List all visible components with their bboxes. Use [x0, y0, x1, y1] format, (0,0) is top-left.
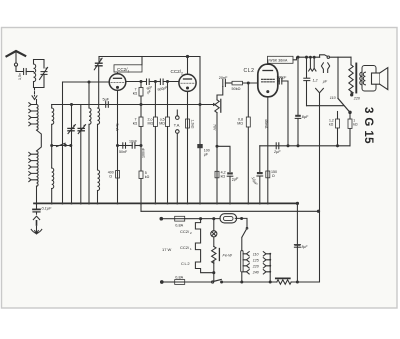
- node tone cap tap: [306, 56, 308, 58]
- wire CL2 cathode: [267, 97, 269, 204]
- switch S1 band switch: [52, 145, 71, 147]
- resistor R15 surge zigzag: [276, 277, 290, 279]
- secondary winding arcs: [360, 72, 362, 85]
- variable capacitor C2 tuning: [41, 71, 47, 73]
- svg-text:10nF: 10nF: [129, 139, 138, 143]
- variable capacitor C5 grid trimmer: [98, 57, 100, 63]
- fuse F1 0,8A: [175, 216, 185, 221]
- antenna plug socket: [14, 63, 17, 66]
- wire long drop x319.5: [319, 93, 321, 282]
- coil L7 grid coil: [98, 108, 100, 124]
- wire grid line tube1: [63, 81, 110, 83]
- svg-text:50kΩ: 50kΩ: [232, 87, 241, 91]
- svg-text:kΩ: kΩ: [133, 122, 138, 126]
- capacitor C17 8uF filter: [297, 57, 299, 114]
- node filter bottom: [297, 145, 299, 147]
- svg-text:5mA: 5mA: [115, 124, 119, 132]
- svg-text:70V: 70V: [213, 124, 217, 131]
- pilot lamp LA1: [213, 219, 215, 231]
- resistor R8 4k: [215, 171, 219, 178]
- wire CL2 anode top: [267, 60, 269, 64]
- svg-text:MΩ: MΩ: [237, 122, 243, 126]
- svg-text:46mA: 46mA: [264, 119, 268, 129]
- potentiometer P1 volume: [213, 103, 216, 107]
- svg-text:5µF: 5µF: [103, 97, 110, 101]
- capacitor C1 antenna coupling: [23, 69, 25, 75]
- wire selector rail: [307, 105, 344, 107]
- wire bus1 end drop: [296, 203, 298, 282]
- resistor R13 1k: [349, 112, 351, 119]
- ground anchor: [36, 226, 38, 234]
- resistor R4 2,0M grid leak: [154, 82, 156, 118]
- svg-text:Ω: Ω: [109, 174, 112, 178]
- tube U2 CC2/2: [179, 74, 196, 91]
- node chain joint: [213, 272, 215, 274]
- capacitor C13 20nF to CL2 grid: [222, 80, 224, 87]
- rail output top: [293, 57, 320, 60]
- capacitor C12 2uF electrolytic: [227, 172, 233, 174]
- svg-text:0,8A: 0,8A: [175, 223, 183, 227]
- svg-text:CC2/: CC2/: [171, 69, 182, 74]
- earth plug chevron: [36, 212, 38, 214]
- node tube2 grid junction: [167, 81, 169, 83]
- svg-text:1: 1: [128, 69, 130, 73]
- svg-text:kΩ: kΩ: [221, 174, 226, 178]
- capacitor C18 1,2uF tone: [306, 57, 308, 78]
- resistor R12 1,2k: [337, 112, 339, 120]
- coil L1 antenna tank: [33, 60, 35, 65]
- svg-text:kΩ: kΩ: [353, 122, 358, 126]
- transformer core: [355, 64, 357, 93]
- svg-text:100nF: 100nF: [142, 147, 146, 158]
- svg-text:CL2: CL2: [244, 68, 255, 74]
- wire rectifier to selector: [235, 218, 247, 227]
- svg-text:20nF: 20nF: [219, 76, 228, 80]
- node plate resistor tap: [140, 81, 142, 83]
- svg-text:240: 240: [252, 270, 259, 274]
- wire tube2 anode to rail: [187, 57, 189, 75]
- fuse F2 0,8A: [175, 280, 185, 285]
- wire socket bus: [269, 253, 271, 273]
- wire mains to fuse: [161, 218, 174, 220]
- tube U1 CC2/1: [109, 74, 126, 91]
- wire rail corner down: [199, 57, 201, 204]
- switch S3 voltage selector arm: [338, 98, 350, 112]
- tap forks L2: [29, 103, 37, 107]
- earth lead dash: [36, 221, 38, 225]
- svg-text:WSK 36mA: WSK 36mA: [269, 59, 288, 63]
- coil L8 reaction coil: [98, 170, 100, 191]
- node C15 corner: [259, 146, 261, 172]
- node grid junction: [88, 81, 90, 83]
- tap 220: [350, 92, 353, 94]
- capacitor C19 0,1uF ground: [36, 203, 38, 209]
- svg-text:3 G 15: 3 G 15: [362, 107, 374, 144]
- antenna A1: [7, 51, 26, 56]
- node heater chain tap: [200, 218, 202, 220]
- resistor R6 cathode bias: [186, 119, 190, 128]
- wire tank top: [34, 60, 45, 69]
- selector voltage taps: [241, 251, 243, 273]
- svg-text:1,2: 1,2: [313, 79, 318, 83]
- svg-text:110: 110: [253, 252, 259, 256]
- capacitor C8 100uF electrolytic: [197, 144, 202, 148]
- svg-text:T.A.: T.A.: [174, 124, 181, 128]
- wire x80.8: [80, 105, 82, 204]
- bus heater: [141, 210, 319, 212]
- ballast resistor R14 Fe-W: [213, 237, 215, 247]
- capacitor C10 50nF: [122, 143, 124, 148]
- wire fuse to rectifier: [185, 218, 220, 220]
- heater chain HT: [195, 219, 213, 273]
- meter box WSK 36mA: [268, 56, 294, 63]
- svg-text:2: 2: [181, 71, 183, 75]
- svg-text:220: 220: [353, 97, 361, 101]
- rail B+ top: [99, 56, 200, 58]
- rectifier V1: [220, 214, 237, 223]
- node grid leak junction: [154, 81, 156, 83]
- variable capacitor C4 trimmer: [78, 127, 84, 129]
- resistor R7 400 ohm tube1 cathode: [116, 171, 120, 179]
- coil L3 band coil lower: [37, 151, 39, 186]
- transformer secondary loop: [362, 66, 376, 92]
- plug stems P2: [310, 56, 312, 58]
- wire AVC x71.5: [71, 105, 73, 204]
- capacitor C20 8uF: [294, 244, 300, 246]
- plug sockets column: [263, 252, 269, 256]
- resistor R5 0,5M grid resistor: [167, 82, 169, 118]
- plug socket circle: [327, 56, 329, 58]
- svg-text:8µF: 8µF: [302, 115, 309, 119]
- node filter tap: [297, 56, 299, 58]
- node pot bottom branch: [216, 145, 218, 147]
- wire mid-right rail y145.8: [260, 145, 350, 147]
- variable capacitor C3 padder: [68, 127, 74, 129]
- wire jog between band coils: [37, 130, 42, 151]
- svg-text:50nF: 50nF: [119, 150, 128, 154]
- plug sockets chevrons: [321, 63, 323, 73]
- resistor R10 0,8M grid: [247, 83, 249, 117]
- node grid return: [287, 145, 289, 147]
- speaker SP1: [372, 73, 380, 84]
- svg-text:kΩ: kΩ: [133, 92, 138, 96]
- svg-text:1,2kΩ: 1,2kΩ: [191, 120, 195, 129]
- svg-text:CC2/: CC2/: [180, 245, 190, 250]
- resistor R2 7k decoupling: [139, 117, 143, 127]
- svg-text:0,1µF: 0,1µF: [42, 207, 52, 211]
- capacitor C9 5uF on AVC rail: [105, 102, 107, 108]
- svg-text:2µF: 2µF: [273, 150, 281, 154]
- transformer T1 primary: [350, 57, 352, 65]
- bus ground: [34, 202, 297, 204]
- svg-text:CC2/: CC2/: [180, 229, 190, 234]
- svg-text:1,5n: 1,5n: [18, 73, 22, 80]
- node selector bottom: [241, 281, 243, 283]
- capacitor C6 coupling 100pF: [146, 79, 148, 85]
- wire ganged tuning link (dashed): [34, 88, 36, 96]
- resistor R9 50k stopper: [232, 81, 243, 85]
- svg-text:220: 220: [252, 264, 259, 268]
- svg-text:8µF: 8µF: [302, 245, 309, 249]
- node rail AVC: [199, 104, 201, 106]
- wire tube1 cathode: [117, 90, 119, 203]
- svg-text:CC2/: CC2/: [117, 67, 128, 72]
- resistor R3 5k: [140, 146, 142, 172]
- coil L2 band coil upper: [37, 105, 39, 131]
- wire tube2 cathode: [187, 91, 189, 203]
- wire cap to tank: [26, 71, 33, 73]
- switch S5 mains: [212, 281, 214, 283]
- wire grid return x62.5: [62, 82, 64, 203]
- svg-text:kΩ: kΩ: [145, 175, 150, 179]
- label box U1: [114, 65, 142, 72]
- svg-text:MΩ: MΩ: [159, 122, 165, 126]
- plug bridge jumper: [320, 55, 327, 57]
- node bus joints: [35, 202, 269, 204]
- wire branch to C12: [217, 146, 230, 171]
- resistor R11 150 ohm cathode: [266, 171, 270, 178]
- node AVC junction2: [140, 104, 142, 106]
- plug fork of drop wire: [316, 88, 324, 92]
- wire antenna lead-in: [15, 51, 17, 63]
- wire cathode network y145: [118, 145, 133, 147]
- svg-text:110: 110: [330, 96, 337, 100]
- svg-text:0,8A: 0,8A: [175, 276, 183, 280]
- coil L4 oscillator: [51, 105, 53, 109]
- wire chain bottom to bus: [36, 186, 38, 203]
- coil L5 oscillator lower: [52, 168, 54, 189]
- band plug contact: [32, 96, 37, 100]
- capacitor C11 10nF: [131, 143, 133, 148]
- jack TA pickup terminals: [176, 110, 178, 116]
- svg-text:125: 125: [253, 258, 259, 262]
- svg-text:17 W: 17 W: [162, 247, 172, 252]
- wire mains bottom: [161, 281, 164, 284]
- wire tank bottom: [34, 74, 45, 87]
- rail AVC horizontal: [52, 104, 213, 106]
- capacitor C16 2uF: [275, 143, 277, 149]
- tap forks L3: [29, 152, 37, 156]
- wire coupling line: [126, 81, 147, 83]
- svg-text:100pF: 100pF: [277, 76, 287, 80]
- node AVC junction: [71, 104, 73, 106]
- svg-text:kΩ: kΩ: [329, 122, 334, 126]
- svg-text:Ω: Ω: [272, 174, 275, 178]
- switch S4: [246, 227, 248, 229]
- capacitor C14 grid 100pF: [278, 80, 280, 82]
- capacitor C15 10uF electrolytic: [257, 172, 263, 174]
- node CL2 grid: [247, 82, 249, 84]
- tube U3 CL2 output: [258, 64, 278, 97]
- wire contact 110 drop: [337, 57, 339, 98]
- svg-text:MΩ: MΩ: [148, 122, 154, 126]
- resistor R1 7k plate load: [140, 82, 142, 88]
- terminal mains L: [160, 217, 163, 220]
- node anode rail: [186, 55, 188, 57]
- node lamp tap: [213, 218, 215, 220]
- svg-text:Fe-W: Fe-W: [223, 254, 233, 258]
- wire band chain top: [36, 100, 38, 105]
- capacitor C7 coupling 500pF: [159, 79, 161, 85]
- wire plug to coupling cap: [16, 66, 23, 71]
- svg-text:CL2: CL2: [181, 261, 190, 266]
- coil L6 RF secondary: [88, 82, 90, 108]
- wire anode rail drop: [141, 57, 143, 65]
